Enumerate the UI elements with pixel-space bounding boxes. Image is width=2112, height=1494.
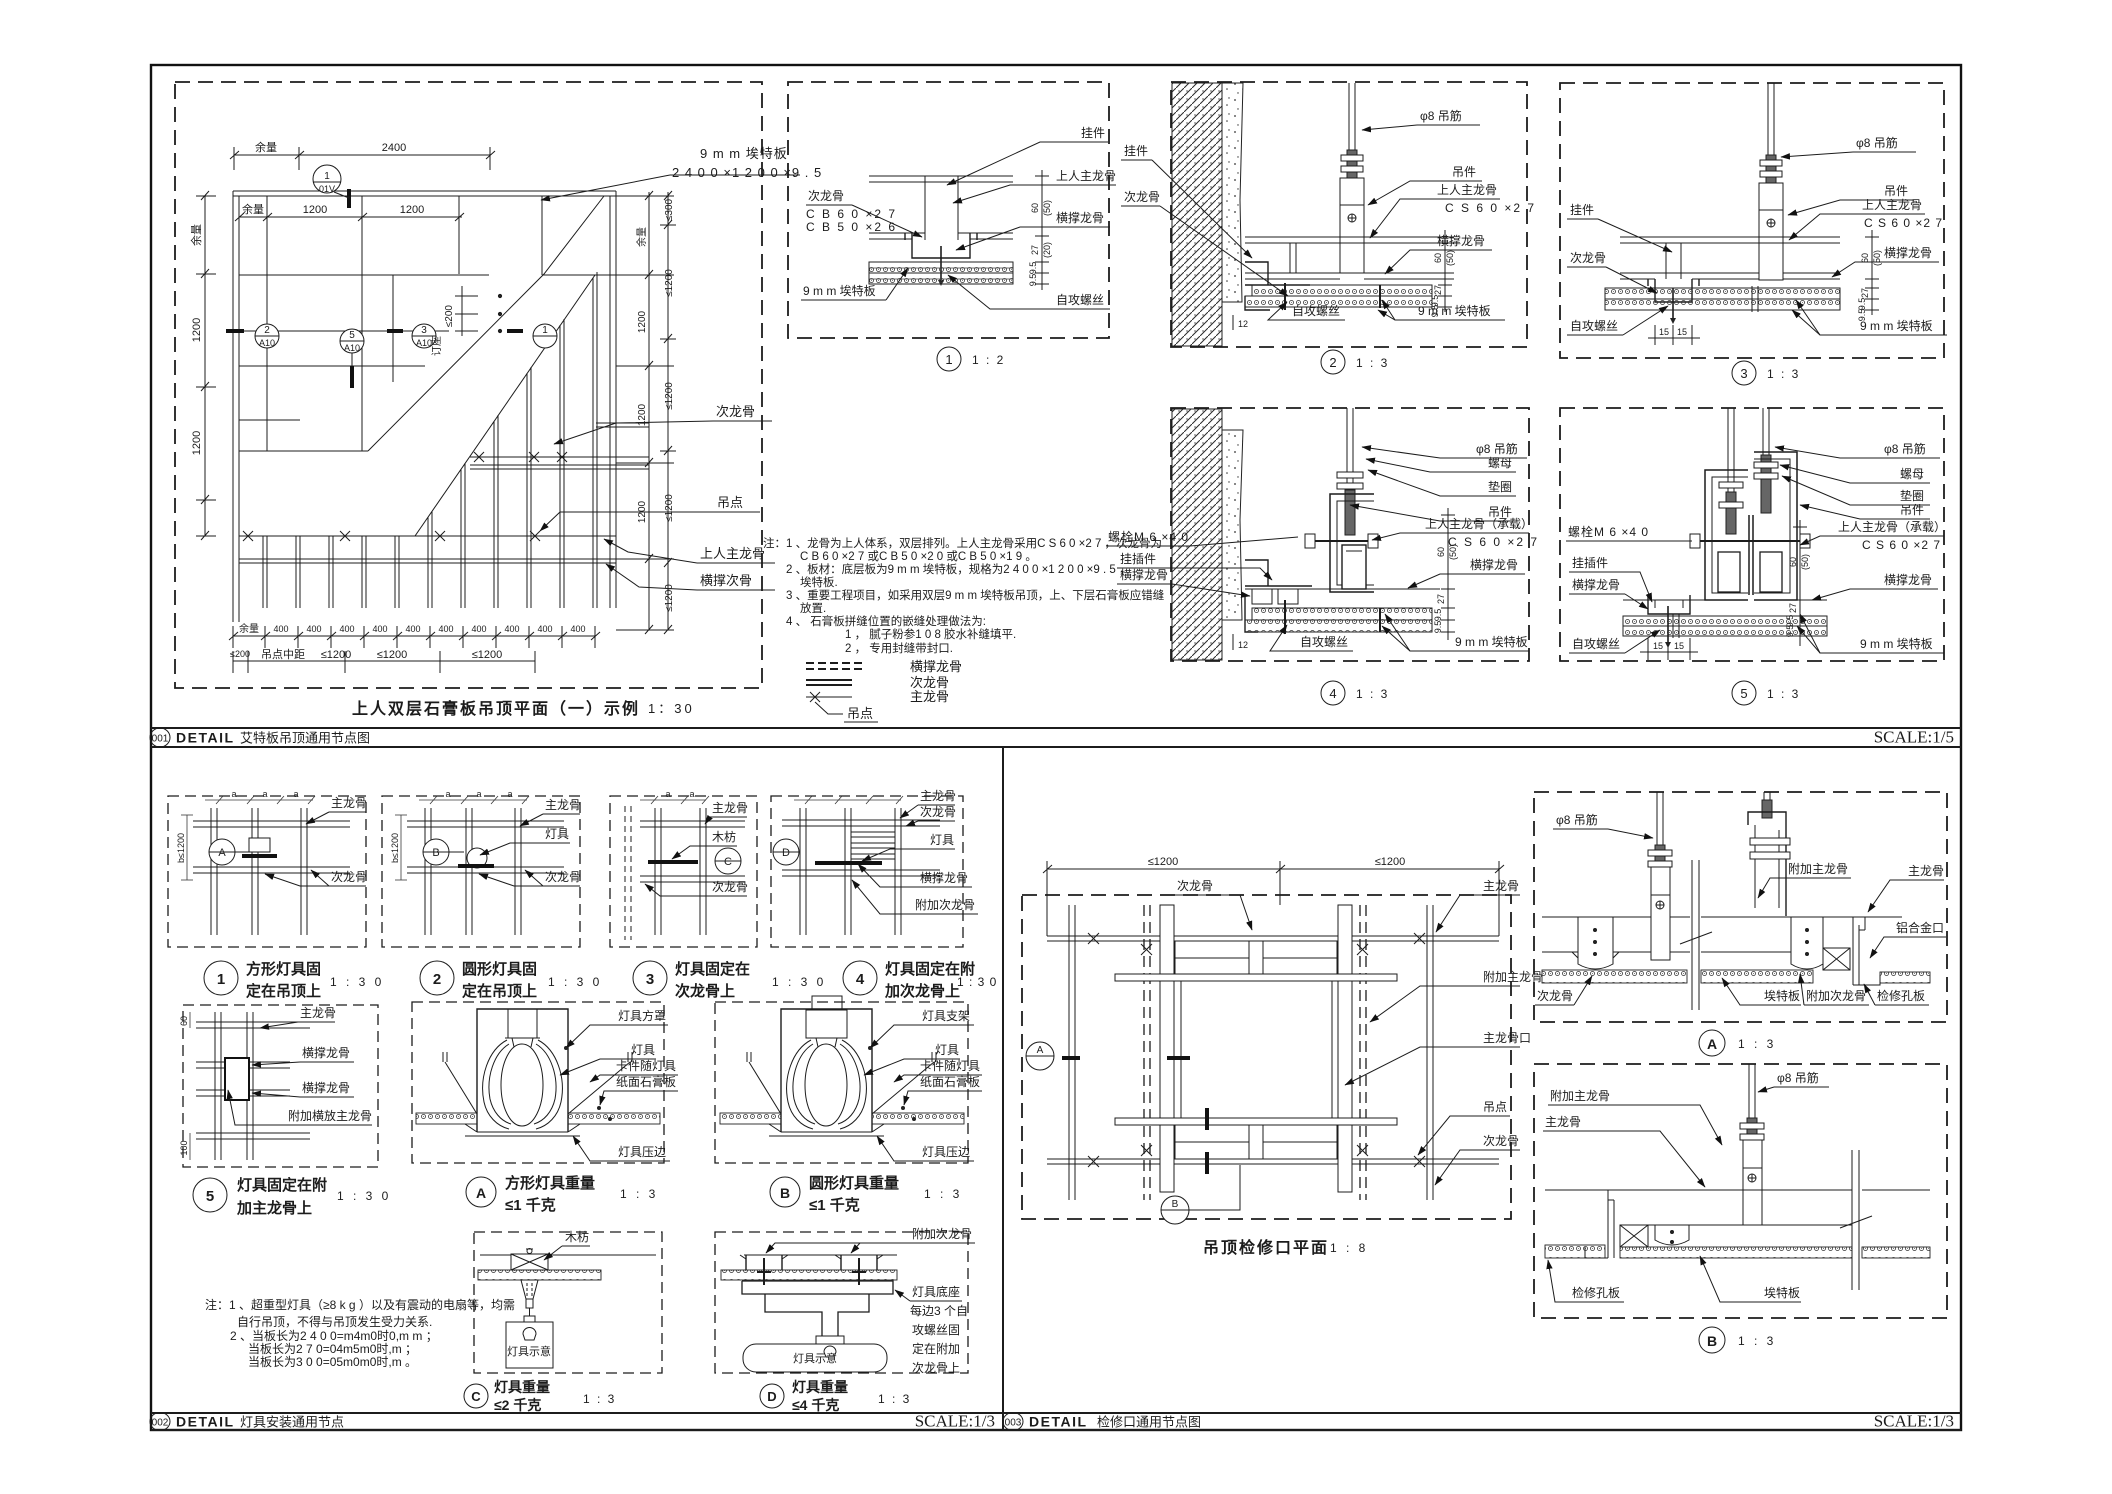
grid circle 2/A10 [255,324,279,348]
box2 top dim [419,796,529,804]
svg-text:当板长为2 7 0=04m5m0时,m ；: 当板长为2 7 0=04m5m0时,m ； [248,1342,417,1356]
svg-text:a: a [689,789,694,799]
boxA side braces [443,1052,632,1114]
svg-text:灯具: 灯具 [545,827,569,841]
svg-text:27: 27 [1030,245,1040,255]
A: break symbol [1680,860,1712,1010]
box3 lamp bar [648,860,698,864]
svg-text:检修孔板: 检修孔板 [1572,1285,1620,1300]
opening side verticals [1181,981,1332,1118]
lamp detail box 3 dashed [610,796,757,947]
title bar 001 [150,728,1961,748]
right dim columns of plan [616,191,676,634]
svg-text:SCALE:1/3: SCALE:1/3 [915,1412,995,1431]
detail 5: bolt M6x40 [1690,534,1810,548]
notes block top section [763,536,1165,655]
detail 5 leader 横撑龙骨 (right) [1812,572,1938,600]
svg-text:φ8 吊筋: φ8 吊筋 [1556,812,1598,827]
svg-text:主龙骨: 主龙骨 [712,801,748,815]
box4 grid horizontals [782,820,940,876]
svg-text:1 : 2: 1 : 2 [972,353,1005,367]
detail 5: center plate [1749,515,1753,595]
detail 4: concrete strip [1222,430,1243,620]
svg-text:a: a [507,789,512,799]
svg-text:吊件: 吊件 [1884,184,1908,198]
svg-text:当板长为3 0 0=05m0m0时,m 。: 当板长为3 0 0=05m0m0时,m 。 [248,1355,417,1369]
A leader 埃特板 [1722,978,1801,1005]
svg-text:9.5: 9.5 [1857,309,1867,322]
B leader 埃特板 [1700,1256,1801,1302]
svg-text:15: 15 [1674,641,1684,651]
svg-text:次龙骨上: 次龙骨上 [912,1361,960,1375]
svg-text:φ8 吊筋: φ8 吊筋 [1777,1070,1819,1085]
svg-text:3: 3 [1740,366,1747,381]
B leader φ8 吊筋 [1758,1070,1829,1092]
detail 1: secondary channel top flanges [869,176,1013,239]
svg-text:b≤1200: b≤1200 [390,833,400,863]
detail 2 leader 自攻螺丝 [1268,302,1345,320]
B: X box and U channel [1620,1225,1689,1247]
detail 5: cross furring channel left [1648,595,1690,614]
svg-text:附加次龙骨: 附加次龙骨 [1806,989,1866,1003]
svg-text:400: 400 [504,624,519,634]
detail 1 leader 上人主龙骨 [953,169,1116,203]
top cut rectangle [1175,941,1337,974]
access detail A dashed box [1534,792,1947,1022]
detail 5 leader φ8 吊筋 [1775,441,1940,458]
svg-text:a: a [665,789,670,799]
A leader 主龙骨 [1868,864,1944,912]
box5 horizontals [196,1022,310,1139]
detail 3 leader 次龙骨 [1567,251,1657,293]
svg-text:9 m m 埃特板: 9 m m 埃特板 [700,146,788,161]
svg-text:15: 15 [1653,641,1663,651]
svg-text:灯具固定在: 灯具固定在 [675,960,750,978]
svg-text:纸面石膏板: 纸面石膏板 [616,1074,676,1089]
svg-text:C: C [724,856,732,868]
A: aluminium access edge [1853,917,1880,985]
svg-text:次龙骨: 次龙骨 [1537,989,1573,1003]
detail 5: hanger rod 1 [1719,408,1743,534]
svg-text:螺母: 螺母 [1900,467,1924,481]
svg-text:a: a [231,789,236,799]
svg-text:方形灯具重量: 方形灯具重量 [505,1174,595,1192]
A leader φ8 吊筋 [1553,812,1653,838]
svg-text:灯具重量: 灯具重量 [792,1379,848,1395]
detail 3 leader 横撑龙骨 [1832,245,1939,277]
boxC ceiling line [480,1254,656,1256]
diagonal band edge D2 [415,275,595,536]
svg-text:3: 3 [646,971,654,988]
boxA leader 灯具 [560,1043,656,1075]
panel grid horizontals [239,275,616,451]
detail 5 leader 挂插件 (left) [1569,556,1612,572]
A leader 检修孔板 [1864,984,1929,1005]
lamp weight box A dashed [412,1002,664,1163]
inner dim row 余量/1200/1200 [235,209,464,228]
svg-text:主龙骨: 主龙骨 [910,689,949,704]
boxD furring channel 1 [740,1255,788,1270]
detail 5: board strips [1623,614,1827,638]
caption 1 [204,960,384,1000]
svg-text:4: 4 [856,971,865,988]
svg-text:次龙骨: 次龙骨 [712,880,748,894]
leader 主龙骨 right [1436,879,1520,932]
caption A [466,1174,658,1214]
svg-text:A10: A10 [259,338,275,348]
A: hanger 1 rod/turnbuckle/runner [1648,792,1672,960]
top dim row 余量/2400 [230,147,495,170]
detail 4 leader 上人主龙骨（承载） CS60×27 [1372,517,1539,549]
notes block 002 [205,1297,515,1369]
detail 5: hanger rod 2 [1754,408,1778,513]
box2 leader 次龙骨 [479,870,581,886]
boxA leader 灯具压边 [573,1136,670,1161]
detail 3: ceiling channels [1620,237,1840,279]
svg-text:400: 400 [405,624,420,634]
svg-text:3 、重要工程项目，如采用双层9 m m 埃特板吊顶，上、下: 3 、重要工程项目，如采用双层9 m m 埃特板吊顶，上、下层石膏板应错缝 [786,588,1165,602]
svg-text:9 m m 埃特板: 9 m m 埃特板 [1455,634,1528,649]
svg-text:吊顶检修口平面: 吊顶检修口平面 [1203,1238,1329,1257]
detail 4 leader 螺栓M6×40 (left) [1106,529,1298,546]
svg-text:(50): (50) [1448,544,1458,560]
A leader 附加主龙骨 [1758,862,1851,898]
detail 5 leader 垫圈 [1782,476,1930,505]
boxC wood block 木枋 [511,1249,548,1271]
boxD screws [757,1258,866,1285]
caption 3 [633,960,826,1000]
detail 4 leader 螺母 [1366,456,1516,472]
svg-text:上人主龙骨: 上人主龙骨 [700,546,765,561]
svg-text:1 : 3: 1 : 3 [878,1392,911,1406]
boxC leader 木枋 [544,1229,590,1260]
boxB leader 灯具压边 [877,1136,974,1161]
svg-text:C S 6 0 ×2 7: C S 6 0 ×2 7 [1445,201,1536,215]
detail 2 leader 挂件 (left) [1121,144,1252,258]
svg-text:1 : 3: 1 : 3 [924,1187,962,1201]
svg-text:9.5: 9.5 [1430,305,1440,318]
svg-text:订座: 订座 [430,336,443,356]
svg-text:1 : 3: 1 : 3 [1767,367,1800,381]
detail 5: ceiling line [1623,599,1827,601]
detail 4 label circle [1321,681,1389,705]
svg-text:自攻螺丝: 自攻螺丝 [1292,304,1340,318]
svg-text:1200: 1200 [303,204,327,216]
svg-text:DETAIL: DETAIL [1029,1414,1088,1430]
svg-text:灯具固定在附: 灯具固定在附 [237,1176,327,1194]
svg-text:卡件随灯具: 卡件随灯具 [920,1058,980,1073]
boxB bulb [787,1038,867,1129]
svg-text:木枋: 木枋 [712,829,736,844]
svg-text:横撑龙骨: 横撑龙骨 [1056,210,1104,225]
svg-text:主龙骨口: 主龙骨口 [1483,1031,1531,1045]
detail 5 label circle [1732,681,1800,705]
svg-text:2 、板材：底层板为9 m m 埃特板，规格为2 4 0 0: 2 、板材：底层板为9 m m 埃特板，规格为2 4 0 0 ×1 2 0 0 … [786,562,1130,576]
svg-text:1200: 1200 [191,431,203,455]
plan outer edges (double lines) [233,191,616,622]
svg-text:吊点: 吊点 [717,495,743,510]
detail 1 label circle [937,347,1005,371]
caption 4 [843,960,997,1000]
svg-text:≤1200: ≤1200 [321,649,352,661]
boxB leader 灯具 [864,1043,960,1075]
detail 4: hook bracket 吊件 [1330,494,1374,592]
box5 clamp detail [225,1058,249,1100]
boxA leader 纸面石膏板 [597,1074,678,1121]
svg-text:2: 2 [264,325,270,336]
detail 1: main runner web [925,176,958,240]
svg-text:27: 27 [1433,285,1443,295]
detail 3 label circle [1732,361,1800,385]
boxB bottom trim [769,1124,884,1136]
svg-text:1 : 3: 1 : 3 [583,1392,616,1406]
svg-text:次龙骨: 次龙骨 [910,675,949,690]
svg-text:3: 3 [421,325,427,336]
detail 3: hanging secondary channel C profile [1648,279,1699,302]
nail seat detail 订座 [455,286,502,336]
svg-text:≤2 千克: ≤2 千克 [494,1397,541,1413]
detail 1 leader 9mm 埃特板 [801,268,908,300]
bold cut marks [1062,1058,1207,1174]
added runner dashed verticals [1144,905,1366,1200]
detail 2 label circle [1321,350,1389,374]
detail 1: C channel below [905,233,977,258]
svg-text:2400: 2400 [382,142,406,154]
svg-text:≤1200: ≤1200 [1375,856,1406,868]
svg-text:次龙骨: 次龙骨 [331,870,367,884]
lamp weight box C dashed [474,1232,662,1373]
svg-text:1: 1 [324,171,330,182]
detail 2 leader 吊件 [1368,165,1482,205]
svg-text:C S 6 0 ×2 7: C S 6 0 ×2 7 [1448,535,1539,549]
svg-text:自攻螺丝: 自攻螺丝 [1300,635,1348,649]
svg-text:吊点中距: 吊点中距 [261,648,305,661]
svg-text:放置.: 放置. [800,601,826,615]
svg-text:60: 60 [1860,253,1870,263]
circle B marker [1161,1165,1240,1224]
svg-text:60: 60 [1433,253,1443,263]
detail 3 leader 自攻螺丝 [1567,306,1668,335]
svg-text:A: A [476,1185,486,1201]
caption 5 [193,1176,391,1217]
boxD board strip [721,1270,897,1280]
svg-text:60: 60 [179,1016,189,1026]
diagonal band edge D1 [368,196,604,451]
box2 leader 主龙骨 [520,798,581,826]
boxC pendant lamp cone and stem [521,1280,538,1322]
svg-text:60: 60 [1030,203,1040,213]
svg-text:12: 12 [1238,319,1248,329]
leader 主龙骨口 [1345,1031,1531,1085]
svg-text:SCALE:1/5: SCALE:1/5 [1874,728,1954,747]
A leader 附加次龙骨 [1800,974,1869,1005]
title bar 003 [1003,1412,1954,1431]
svg-text:上人主龙骨（承载）: 上人主龙骨（承载） [1838,520,1946,534]
detail 2: main runner hanger body [1340,178,1364,273]
boxA leader 卡件随灯具 [590,1058,678,1082]
svg-text:横撑龙骨: 横撑龙骨 [302,1080,350,1095]
svg-text:≤4 千克: ≤4 千克 [792,1397,839,1413]
box2 grid verticals [425,808,521,935]
svg-text:次龙骨: 次龙骨 [1124,190,1160,204]
detail 4 dashed box [1171,408,1529,661]
detail 5: runner sections [1718,552,1782,592]
detail 3 leader 吊件 [1788,184,1914,215]
detail 5 leader 吊件 [1800,503,1930,519]
B: aluminium edge left [1585,1190,1614,1258]
svg-text:SCALE:1/3: SCALE:1/3 [1874,1412,1954,1431]
access panel plan dashed box [1022,895,1511,1219]
svg-text:9 m m 埃特板: 9 m m 埃特板 [1860,636,1933,651]
svg-text:自行吊顶，不得与吊顶发生受力关系.: 自行吊顶，不得与吊顶发生受力关系. [237,1314,432,1329]
grid circle 1 [533,324,557,348]
caption C [464,1379,616,1413]
svg-text:横撑龙骨: 横撑龙骨 [302,1045,350,1060]
box1 top dim [205,796,315,804]
svg-text:灯具示意: 灯具示意 [793,1351,837,1365]
detail 2: screws in board [1285,283,1380,310]
boxB leader 纸面石膏板 [901,1074,982,1121]
svg-text:次龙骨: 次龙骨 [1483,1134,1519,1148]
added runner solid bars [1160,905,1352,1192]
lamp detail box 2 dashed [382,796,580,947]
svg-text:≤1200: ≤1200 [1148,856,1179,868]
detail 4 small dim 12 [1232,634,1234,650]
svg-text:9.5: 9.5 [1028,274,1038,287]
section divider between 002 and 003 [1002,747,1004,1430]
caption 2 [420,960,602,1000]
svg-text:附加次龙骨: 附加次龙骨 [912,1227,972,1241]
lamp detail box 1 dashed [168,796,366,947]
boxA board strips [416,1113,660,1124]
svg-text:27: 27 [1788,603,1798,613]
x marks on channels [1088,933,1425,1167]
svg-text:002: 002 [152,1418,169,1429]
boxA bulb [483,1038,563,1129]
leader 次龙骨 top [1175,879,1252,930]
box1 leader 次龙骨 [265,870,367,886]
A: right U channel and X box [1791,917,1850,970]
svg-text:圆形灯具重量: 圆形灯具重量 [809,1174,899,1192]
svg-text:主龙骨: 主龙骨 [331,796,367,810]
detail 5: bracket right C [1754,452,1797,600]
circle A marker [1026,1042,1054,1070]
B: board strip [1545,1245,1605,1258]
svg-text:A10: A10 [344,343,360,353]
svg-text:吊点: 吊点 [847,706,873,721]
svg-text:吊件: 吊件 [1900,503,1924,517]
svg-text:加次龙骨上: 加次龙骨上 [884,982,960,1000]
B: ceiling line [1545,1190,1930,1225]
detail 4: wall hatch [1172,409,1222,660]
box5 leader 主龙骨 [260,1006,336,1028]
svg-text:a: a [445,789,450,799]
svg-text:埃特板: 埃特板 [1764,1285,1800,1300]
svg-text:≤1200: ≤1200 [472,649,503,661]
svg-text:≤1200: ≤1200 [377,649,408,661]
svg-text:吊件: 吊件 [1452,165,1476,179]
box5 verticals [215,1012,253,1160]
boxD text 灯具底座... [895,1284,968,1375]
box4 leader 附加次龙骨 [852,880,978,914]
A: board strip [1542,970,1687,983]
svg-text:木枋: 木枋 [565,1229,589,1244]
svg-text:1 : 3: 1 : 3 [1738,1037,1776,1051]
detail 2 dashed box [1171,82,1527,347]
detail 4 leader 挂插件 (left) [1117,552,1272,580]
boxA housing square [477,1009,568,1132]
svg-text:定在吊顶上: 定在吊顶上 [246,982,321,1000]
svg-text:次龙骨: 次龙骨 [716,404,755,419]
svg-text:横撑龙骨: 横撑龙骨 [920,870,968,885]
detail 5 leader 横撑龙骨 (left) [1569,572,1652,609]
svg-text:φ8 吊筋: φ8 吊筋 [1476,441,1518,456]
box4 top dim [794,796,903,804]
svg-text:9 m m 埃特板: 9 m m 埃特板 [1860,318,1933,333]
svg-text:次龙骨: 次龙骨 [545,870,581,884]
svg-text:001: 001 [152,734,169,745]
detail 1: screw [938,246,944,286]
svg-text:400: 400 [306,624,321,634]
svg-text:01V: 01V [319,184,335,194]
box4 ladder rungs 附加次龙骨 [851,832,895,859]
svg-text:400: 400 [570,624,585,634]
svg-text:400: 400 [273,624,288,634]
detail 1: board (9mm) two layers [869,262,1013,284]
svg-text:定在吊顶上: 定在吊顶上 [462,982,537,1000]
box3 grid horizontals [640,821,745,882]
page border frame [151,65,1961,1430]
svg-text:埃特板: 埃特板 [1764,988,1800,1003]
svg-text:1: 1 [217,971,225,988]
svg-text:附加主龙骨: 附加主龙骨 [1550,1089,1610,1103]
svg-text:2: 2 [1329,355,1336,370]
joists (vertical double lines) [263,272,597,608]
svg-text:≤200: ≤200 [444,305,455,328]
lamp weight box B dashed [715,1002,968,1163]
svg-text:φ8 吊筋: φ8 吊筋 [1884,441,1926,456]
legend 主龙骨 with hanging point [806,689,949,722]
svg-text:1：30: 1：30 [648,701,695,716]
svg-text:1 : 8: 1 : 8 [1330,1241,1368,1255]
box2 grid horizontals [407,821,564,873]
box5 left small dims [189,1012,191,1160]
boxC bulb box 灯具示意 [506,1322,553,1368]
plan: dashed boundary box [175,82,762,688]
leader 次龙骨 [554,404,772,444]
boxD leader 附加次龙骨 [766,1227,975,1253]
svg-text:5: 5 [1740,686,1747,701]
detail 3 leader 挂件 [1567,203,1672,252]
svg-text:D: D [782,847,790,859]
svg-text:主龙骨: 主龙骨 [920,789,956,803]
detail 5 leader 自攻螺丝 / 9mm 埃特板 [1569,614,1944,653]
svg-text:(50): (50) [1872,250,1882,266]
svg-text:A: A [218,847,226,859]
box5 leader 附加横放主龙骨 [228,1090,372,1125]
svg-text:上人主龙骨: 上人主龙骨 [1056,169,1116,183]
box3 circle C [715,848,741,874]
leader 吊点 [1418,1100,1510,1155]
svg-text:C S 6 0 ×2 7: C S 6 0 ×2 7 [1862,538,1941,552]
detail 5 small dims 15 8 15 [1640,638,1698,660]
svg-text:B: B [1707,1333,1717,1349]
svg-text:≤200: ≤200 [230,649,250,659]
elevation circle 01V [313,165,349,198]
svg-text:铝合金口: 铝合金口 [1896,920,1944,935]
box1 leader 主龙骨 [306,796,367,824]
svg-text:螺母: 螺母 [1488,456,1512,470]
